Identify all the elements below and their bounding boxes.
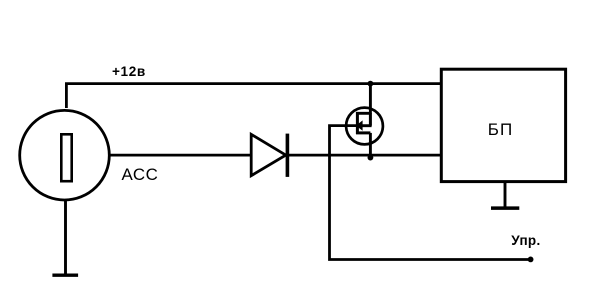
wire: diode cathode to БП left edge xyxy=(289,154,441,157)
VT1 source wire down to ACC rail xyxy=(369,133,372,158)
wire: gate control run (to Упр.) xyxy=(330,126,531,260)
diode VD1 cathode bar xyxy=(286,134,290,177)
junction dot: drain to +12v rail xyxy=(368,81,374,87)
VT1 bottom bar (source connection) xyxy=(356,131,370,134)
svg-text:АСС: АСС xyxy=(122,165,159,184)
wire ACC: switch right side to diode anode xyxy=(109,154,251,157)
VT1 body bar with arrow xyxy=(361,124,372,127)
junction dot: source to ACC rail xyxy=(368,155,374,161)
transistor VT1 envelope circle xyxy=(346,108,383,145)
diode VD1 triangle (anode) xyxy=(251,134,286,175)
VT1 arrowhead pointing left xyxy=(356,120,363,130)
power supply unit БП box xyxy=(441,69,565,181)
node Упр. terminal dot xyxy=(528,257,534,263)
svg-text:БП: БП xyxy=(488,120,514,139)
ground stem of БП xyxy=(504,182,507,208)
ground bar of БП xyxy=(491,206,519,210)
VT1 right vertical (drain to body tie) xyxy=(369,113,372,125)
ignition switch SW1 (key switch circle) xyxy=(20,110,110,200)
key slot of SW1 xyxy=(61,134,71,181)
ground stem of switch xyxy=(64,200,67,276)
wire +12v rail: switch top to БП left edge xyxy=(66,84,441,108)
VT1 gate bar (left vertical) xyxy=(356,112,359,134)
ground bar of switch xyxy=(52,274,78,277)
VT1 drain wire to +12v rail xyxy=(369,84,372,114)
svg-text:Упр.: Упр. xyxy=(511,233,540,248)
svg-text:+12в: +12в xyxy=(112,64,146,79)
VT1 top bar (drain connection) xyxy=(356,112,370,115)
